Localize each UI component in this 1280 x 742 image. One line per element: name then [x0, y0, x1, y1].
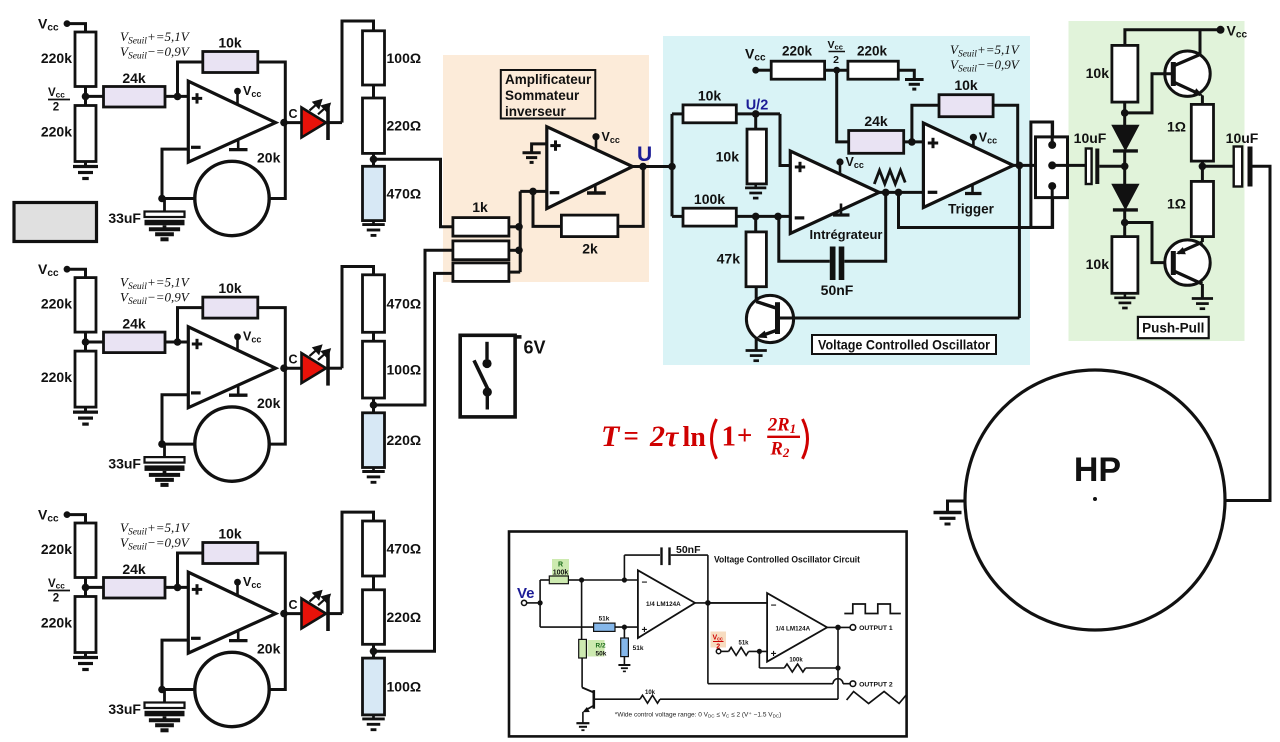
svg-text:R/2: R/2: [596, 643, 607, 650]
node ladder tap (ladder 1): [370, 156, 378, 164]
op-amp ground pin integrator: [840, 204, 843, 215]
switch contacts: [485, 342, 488, 359]
svg-text:10k: 10k: [218, 280, 242, 296]
svg-text:Amplificateur: Amplificateur: [505, 72, 592, 87]
svg-text:1Ω: 1Ω: [1167, 196, 1186, 212]
inset wire Ve lower branch: [540, 626, 594, 628]
op-amp comparator: [188, 81, 275, 162]
wire Q1 base feedback: [779, 317, 1020, 320]
wire Vcc to divider: [67, 269, 86, 277]
svg-text:47k: 47k: [717, 251, 741, 267]
svg-text:100Ω: 100Ω: [387, 362, 422, 378]
wire pot to - input node: [162, 443, 195, 446]
op-amp ground pin: [237, 630, 240, 641]
svg-text:50nF: 50nF: [676, 544, 701, 556]
wire 10k to trigger output: [993, 105, 1018, 165]
inset node R out: [579, 577, 584, 582]
svg-text:U/2: U/2: [746, 98, 769, 114]
wire ladder segment: [372, 85, 375, 98]
ground below 33uF: [163, 225, 167, 229]
ground below ladder (ladder 3): [372, 715, 375, 719]
potentiometer 20k: [195, 652, 269, 726]
svg-text:Sommateur: Sommateur: [505, 88, 580, 103]
integrator op-amp U3: [790, 151, 879, 234]
inset triangle wave icon: [847, 692, 907, 704]
wire 24k to trigger +: [904, 140, 924, 143]
node C op-amp output: [280, 364, 288, 372]
svg-text:Vcc: Vcc: [38, 261, 59, 279]
wire 24k to op-amp + input: [165, 95, 188, 98]
wire 10k to diode string: [1123, 102, 1126, 126]
svg-text:470Ω: 470Ω: [387, 185, 422, 201]
wire 24k to op-amp + input: [165, 341, 188, 344]
resistor 2k feedback: [561, 215, 618, 237]
svg-text:220k: 220k: [41, 296, 72, 312]
resistor 220k lower divider: [75, 106, 96, 162]
wire trigger + to 10k feedback: [912, 105, 939, 142]
inset VCO circuit box: [509, 532, 907, 737]
resistor 10k trigger feedback: [939, 95, 993, 117]
svg-text:100k: 100k: [789, 658, 803, 664]
inset OUTPUT 1 terminal: [827, 626, 850, 628]
inset ground below 51k: [623, 657, 625, 665]
wire U to VCO input: [671, 114, 674, 216]
svg-text:1k: 1k: [472, 199, 488, 215]
node C op-amp output: [280, 119, 288, 127]
LED red: [302, 599, 327, 629]
wire tap to summing input (ladder 2): [374, 250, 453, 405]
resistor 10k feedback: [203, 543, 258, 564]
svg-text:470Ω: 470Ω: [387, 296, 422, 312]
svg-text:24k: 24k: [122, 561, 146, 577]
svg-text:24k: 24k: [122, 316, 146, 332]
svg-text:20k: 20k: [257, 395, 281, 411]
resistor 220k upper divider: [75, 523, 96, 578]
inset wire Ve up to R: [539, 580, 541, 627]
inset transistor Q: [582, 688, 594, 693]
ground at + input: [532, 144, 547, 152]
ground below 10k bottom: [1124, 293, 1127, 298]
svg-text:51k: 51k: [633, 645, 644, 652]
inset op-amp1 output: [695, 602, 767, 604]
svg-text:50nF: 50nF: [821, 282, 854, 298]
svg-text:33uF: 33uF: [108, 701, 141, 717]
svg-text:+: +: [737, 420, 752, 450]
svg-text:10uF: 10uF: [1226, 130, 1259, 146]
node diode mid: [1121, 163, 1129, 171]
label box Amplificateur Sommateur inverseur: [501, 70, 596, 119]
speaker HP: [965, 370, 1225, 630]
resistor 100&#937; (ladder 3): [363, 658, 385, 715]
svg-text:*Wide control voltage range: 0: *Wide control voltage range: 0 VDC ≤ VC …: [615, 712, 781, 719]
svg-text:220k: 220k: [41, 50, 72, 66]
resistor 24k trigger: [849, 131, 904, 154]
svg-text:2τ: 2τ: [649, 420, 680, 453]
resistor 10k U/2 to ground: [754, 114, 757, 129]
ground below 33uF: [163, 471, 167, 475]
svg-text:220k: 220k: [41, 615, 72, 631]
svg-text:220Ω: 220Ω: [387, 609, 422, 625]
op-amp Vcc pin trigger: [970, 134, 977, 141]
wire + node up to 10k feedback: [178, 553, 203, 587]
resistor 470&#937; (ladder 3): [363, 521, 385, 576]
resistor 220&#937; (ladder 3): [363, 590, 385, 645]
svg-text:−: −: [771, 601, 777, 612]
inset wire op1 out to op2 -: [708, 602, 767, 604]
capacitor 33uF: [163, 199, 166, 212]
op-amp comparator: [188, 327, 275, 408]
diode D1: [1113, 126, 1138, 150]
svg-text:Voltage Controlled Oscillator: Voltage Controlled Oscillator Circuit: [714, 555, 861, 566]
svg-text:Trigger: Trigger: [948, 202, 995, 217]
transistor PNP push-pull bottom: [1171, 251, 1176, 275]
push-pull background (green): [1069, 21, 1245, 341]
svg-text:+: +: [771, 649, 777, 660]
ground below divider: [84, 407, 87, 412]
inset op-amp 2: [767, 593, 827, 662]
wire cap to diode node: [1099, 165, 1124, 168]
svg-text:=: =: [624, 421, 639, 451]
wire LED cathode out: [328, 367, 342, 370]
resistor 1k input 1: [453, 218, 509, 237]
inset OUTPUT 2 terminal: [850, 681, 856, 687]
svg-text:VSeuil−=0,9V: VSeuil−=0,9V: [120, 290, 191, 308]
svg-text:U: U: [637, 143, 652, 166]
ground below ladder (ladder 1): [372, 221, 375, 225]
svg-text:220k: 220k: [857, 44, 888, 59]
resistor 470&#937; (ladder 2): [363, 275, 385, 333]
svg-text:2: 2: [833, 54, 839, 66]
ground right of 220k: [898, 70, 914, 79]
diode D2: [1113, 185, 1138, 209]
connector jack back: [1031, 122, 1053, 227]
svg-text:220k: 220k: [41, 541, 72, 557]
wire push-pull output to HP: [1225, 166, 1270, 500]
svg-text:6V: 6V: [524, 338, 546, 358]
inset ground below Q: [576, 722, 589, 724]
resistor 220k VCO left: [771, 61, 824, 79]
ground below divider: [84, 162, 87, 167]
op-amp Vcc pin: [236, 91, 239, 103]
inset resistor R/2 50k: [588, 640, 605, 657]
node Vcc/2 divider midpoint: [84, 87, 87, 106]
op-amp summing U2: [547, 127, 633, 209]
svg-text:ln: ln: [683, 422, 707, 453]
svg-text:2: 2: [53, 593, 59, 605]
wire U/2 to integrator +: [780, 114, 790, 166]
node - input summing: [529, 188, 537, 196]
switch 6V box: [460, 335, 515, 417]
inset op-amp 1: [582, 579, 638, 581]
ground below 10k: [754, 184, 757, 188]
svg-text:2: 2: [53, 102, 59, 114]
svg-text:10k: 10k: [716, 149, 740, 165]
resistor 1 ohm bottom: [1191, 181, 1213, 236]
svg-text:R: R: [558, 562, 563, 569]
wire LED to ladder top (ladder 2): [342, 267, 374, 369]
svg-text:33uF: 33uF: [108, 456, 141, 472]
wire trigger output feedback to Q1 base: [1018, 165, 1021, 318]
wire output to LED: [284, 121, 302, 124]
label box Push-Pull: [1138, 317, 1209, 338]
wire LED cathode out: [328, 612, 342, 615]
inset wire R/2 to Q: [581, 658, 583, 688]
svg-text:VSeuil−=0,9V: VSeuil−=0,9V: [120, 44, 191, 62]
op-amp Vcc pin: [236, 337, 239, 349]
capacitor 50nF integrator feedback: [844, 192, 885, 261]
node Vcc/2 divider midpoint: [84, 332, 87, 351]
resistor 1 ohm top: [1191, 104, 1213, 161]
ground below 33uF: [163, 716, 167, 720]
svg-text:10k: 10k: [218, 526, 242, 542]
svg-text:−: −: [642, 578, 648, 589]
op-amp ground pin summing: [594, 185, 597, 193]
resistor 220&#937; (ladder 2): [363, 413, 385, 468]
connector pins: [1051, 122, 1054, 145]
grey placeholder rectangle: [14, 203, 97, 242]
svg-text:T: T: [601, 420, 621, 453]
node C op-amp output: [280, 610, 288, 618]
wire ladder segment: [372, 153, 375, 166]
wire Vcc to divider: [67, 24, 86, 32]
wire LED cathode out: [328, 121, 342, 124]
resistor 220k lower divider: [75, 597, 96, 653]
label box Voltage Controlled Oscillator: [812, 335, 996, 354]
trigger op-amp U4: [923, 123, 1013, 208]
resistor 220k VCO right: [848, 61, 898, 79]
resistor 220&#937; (ladder 1): [363, 98, 385, 153]
potentiometer 20k: [195, 407, 269, 481]
wire Vcc/2 to 24k: [86, 95, 104, 98]
svg-text:220k: 220k: [41, 369, 72, 385]
push-pull Vcc: [1217, 26, 1225, 34]
resistor 1k input 2: [453, 241, 509, 260]
wire ladder segment: [372, 644, 375, 658]
inset resistor 51k vertical: [623, 627, 625, 638]
svg-text:VSeuil−=0,9V: VSeuil−=0,9V: [120, 535, 191, 553]
ground below PNP: [1201, 297, 1204, 300]
capacitor 10uF right: [1202, 165, 1233, 168]
node integrator output: [879, 191, 923, 194]
wire Vcc to divider: [67, 515, 86, 523]
wire output to LED: [284, 612, 302, 615]
svg-text:50k: 50k: [596, 651, 607, 658]
svg-text:OUTPUT 1: OUTPUT 1: [859, 625, 893, 632]
resistor 24k: [104, 578, 166, 599]
svg-text:Vcc: Vcc: [243, 330, 261, 345]
svg-text:C: C: [289, 353, 298, 367]
wire - node to 2k: [533, 191, 561, 226]
capacitor 33uF: [163, 690, 166, 703]
svg-text:1/4 LM124A: 1/4 LM124A: [646, 601, 681, 608]
wire tap to summing input (ladder 3): [374, 273, 453, 651]
svg-text:10k: 10k: [698, 88, 722, 104]
connector jack front: [1036, 137, 1068, 198]
resistor 24k: [104, 332, 166, 353]
potentiometer 20k: [195, 161, 269, 235]
svg-text:2R1: 2R1: [767, 416, 796, 437]
VCO background (cyan): [663, 36, 1030, 365]
wire LED to ladder top (ladder 1): [342, 21, 374, 123]
wire 100k to integrator -: [736, 215, 790, 218]
wire ladder segment: [372, 332, 375, 341]
svg-text:+: +: [642, 625, 648, 636]
op-amp ground pin: [237, 384, 240, 395]
svg-text:24k: 24k: [864, 113, 888, 129]
svg-text:Push-Pull: Push-Pull: [1142, 321, 1204, 336]
resistor 100k VCO: [683, 208, 736, 226]
transistor NPN push-pull top: [1165, 51, 1210, 96]
inset resistor R 100k: [552, 559, 569, 576]
resistor 10k VCO top: [683, 105, 736, 123]
resistor 1k input 3: [453, 263, 509, 282]
svg-text:100Ω: 100Ω: [387, 50, 422, 66]
inset feedback 10k to Q base: [837, 627, 839, 699]
wire output down to 20k pot: [269, 368, 285, 444]
wire connector middle pin to cap: [1052, 164, 1086, 167]
LED red: [302, 353, 327, 383]
svg-text:220Ω: 220Ω: [387, 432, 422, 448]
op-amp comparator: [188, 572, 275, 653]
resistor 220k upper divider: [75, 32, 96, 87]
ground below ladder (ladder 2): [372, 468, 375, 472]
wire + node up to 10k feedback: [178, 308, 203, 342]
node U summing output: [639, 163, 647, 171]
wire output down to 20k pot: [269, 614, 285, 690]
capacitor 33uF: [163, 444, 166, 457]
svg-text:10k: 10k: [954, 77, 978, 93]
svg-text:220Ω: 220Ω: [387, 118, 422, 134]
svg-text:C: C: [289, 598, 298, 612]
wire output to LED: [284, 367, 302, 370]
wire LED to ladder top (ladder 3): [342, 512, 374, 614]
svg-text:R2: R2: [770, 440, 790, 461]
svg-text:10uF: 10uF: [1074, 130, 1107, 146]
resistor 470&#937; (ladder 1): [363, 166, 385, 220]
wire Vcc/2 to 24k: [86, 341, 104, 344]
wire VCO top branch: [672, 112, 683, 115]
wire 24k to op-amp + input: [165, 586, 188, 589]
wire 10k to output node: [258, 308, 286, 369]
svg-text:2k: 2k: [582, 241, 598, 257]
svg-text:Vcc: Vcc: [48, 578, 65, 591]
resistor 220k lower divider: [75, 351, 96, 407]
svg-text:20k: 20k: [257, 641, 281, 657]
node push-pull output: [1201, 161, 1204, 181]
svg-text:Ve: Ve: [517, 585, 535, 602]
wire Vcc/2 to 24k: [86, 586, 104, 589]
svg-text:Vcc: Vcc: [243, 84, 261, 99]
op-amp ground pin trigger: [971, 185, 974, 194]
ground at HP left: [948, 501, 966, 512]
formula T = 2 tau ln(1 + 2R1/R2): [601, 416, 808, 461]
wire pot to - input node: [162, 688, 195, 691]
wire 10k to output node: [258, 553, 286, 614]
op-amp Vcc pin summing: [592, 133, 599, 140]
node Vcc/2 divider midpoint: [84, 578, 87, 597]
op-amp ground pin: [237, 139, 240, 150]
node ladder tap (ladder 2): [370, 401, 378, 409]
wire integrator out to trigger feedback: [899, 192, 1053, 227]
LED red: [302, 108, 327, 138]
svg-text:Vcc: Vcc: [38, 507, 59, 525]
svg-text:51k: 51k: [599, 616, 610, 623]
wire output U: [633, 165, 673, 168]
svg-text:Intrégrateur: Intrégrateur: [810, 227, 883, 242]
svg-text:220k: 220k: [41, 124, 72, 140]
inset wire to OUTPUT2: [707, 603, 709, 684]
resistor 220k upper divider: [75, 278, 96, 333]
wire 1k bus to - input: [509, 225, 520, 228]
resistor 24k: [104, 87, 166, 108]
svg-text:470Ω: 470Ω: [387, 541, 422, 557]
wire Vcc/2 down to 24k: [837, 70, 849, 142]
sawtooth symbol: [874, 170, 905, 184]
ground below divider: [84, 653, 87, 658]
capacitor 10uF left: [1086, 149, 1092, 185]
svg-text:1: 1: [722, 421, 737, 453]
inset resistor 100k feedback zigzag: [758, 651, 760, 668]
resistor 47k: [754, 216, 757, 232]
svg-text:Voltage Controlled Oscillator: Voltage Controlled Oscillator: [818, 338, 991, 353]
svg-text:10k: 10k: [645, 690, 656, 696]
svg-text:1Ω: 1Ω: [1167, 119, 1186, 135]
svg-text:100k: 100k: [694, 191, 725, 207]
wire trigger out to connector: [1013, 164, 1035, 167]
svg-text:Vcc: Vcc: [48, 87, 65, 100]
resistor 10k feedback: [203, 297, 258, 318]
wire to PNP base: [1125, 223, 1171, 263]
resistor 10k push-pull top: [1112, 45, 1138, 102]
svg-text:inverseur: inverseur: [505, 104, 567, 119]
svg-text:C: C: [289, 107, 298, 121]
transistor Q1 VCO (NPN): [746, 295, 793, 342]
svg-text:Vcc: Vcc: [38, 16, 59, 34]
wire ladder segment: [372, 398, 375, 413]
node Vcc/2 VCO: [825, 69, 848, 72]
svg-text:51k: 51k: [739, 641, 750, 647]
ground below Q1: [755, 349, 758, 352]
svg-text:10k: 10k: [1086, 256, 1110, 272]
wire Vcc to 220k: [756, 69, 772, 72]
wire pot to - input node: [162, 197, 195, 200]
op-amp Vcc pin integrator: [836, 158, 843, 165]
summing amplifier background (peach): [443, 55, 649, 282]
resistor 10k push-pull bottom: [1112, 237, 1138, 294]
op-amp Vcc pin: [236, 582, 239, 594]
inset Vcc/2 source: [711, 632, 727, 648]
svg-text:10k: 10k: [1086, 65, 1110, 81]
node trigger output: [1016, 162, 1024, 170]
wire ladder segment: [372, 576, 375, 590]
inset square wave icon: [844, 604, 901, 614]
wire + node up to 10k feedback: [178, 62, 203, 96]
resistor 100&#937; (ladder 1): [363, 31, 385, 85]
svg-text:33uF: 33uF: [108, 210, 141, 226]
node U/2: [736, 112, 780, 115]
wire tap to summing input (ladder 1): [374, 159, 453, 227]
svg-text:20k: 20k: [257, 150, 281, 166]
svg-text:220k: 220k: [782, 44, 813, 59]
svg-text:OUTPUT 2: OUTPUT 2: [859, 682, 893, 689]
wire 2k to output: [618, 167, 643, 227]
wire to NPN base: [1125, 74, 1171, 113]
svg-text:24k: 24k: [122, 70, 146, 86]
svg-text:1/4 LM124A: 1/4 LM124A: [776, 626, 811, 633]
wire output down to 20k pot: [269, 123, 285, 199]
svg-text:Vcc: Vcc: [243, 575, 261, 590]
resistor 10k feedback: [203, 52, 258, 73]
